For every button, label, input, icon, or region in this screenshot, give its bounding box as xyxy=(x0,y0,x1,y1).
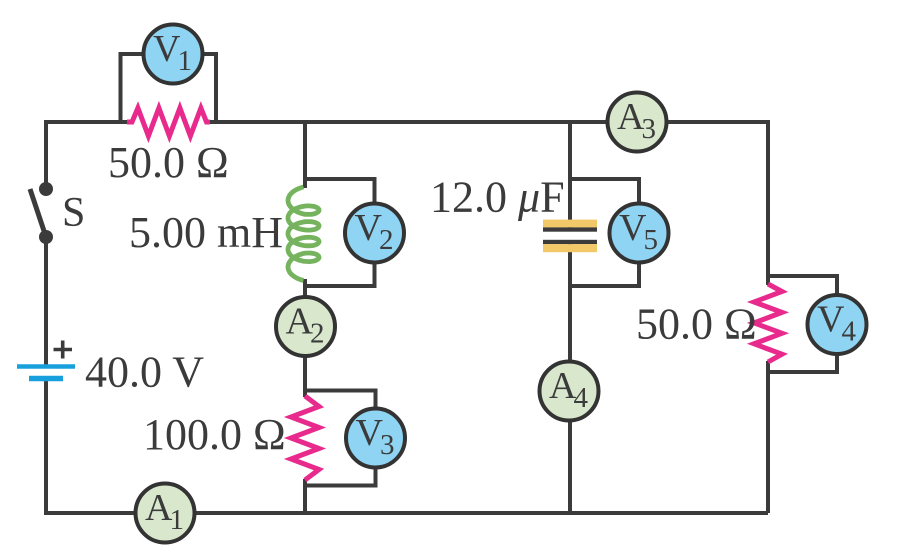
svg-text:50.0 Ω: 50.0 Ω xyxy=(108,138,229,187)
wire: coil bottom to A2 xyxy=(303,279,307,300)
wire: V2 bracket xyxy=(303,179,375,286)
inductor L1 5.00 mH (green coil) xyxy=(288,187,319,280)
svg-text:12.0 μF: 12.0 μF xyxy=(430,173,565,222)
wire: V1 bracket xyxy=(121,54,217,122)
wire: middle branch top (junction to coil) xyxy=(303,120,307,188)
wire: V3 bracket xyxy=(303,391,376,486)
capacitor C1 plates with yellow highlights xyxy=(543,220,597,253)
voltmeter V5 xyxy=(610,204,669,263)
svg-text:S: S xyxy=(62,190,85,236)
battery plus sign xyxy=(54,341,73,359)
wire: right wire below resistor to bottom-right corner xyxy=(766,361,770,513)
resistor R1 50.0 ohm (top, horizontal) xyxy=(127,108,210,136)
svg-text:50.0 Ω: 50.0 Ω xyxy=(636,300,757,349)
wire: resistor 100ohm bottom to bottom wire xyxy=(303,479,307,515)
svg-text:40.0 V: 40.0 V xyxy=(85,348,204,397)
resistor R2 100.0 ohm (middle, vertical) xyxy=(291,396,319,480)
wire: bottom wire and left wire lower segment xyxy=(46,377,768,513)
svg-text:100.0 Ω: 100.0 Ω xyxy=(143,410,286,459)
wire: capacitor to A4 to bottom wire xyxy=(568,240,572,515)
ammeter A2 xyxy=(276,297,335,356)
wire: top-left corner run (left wire upper + top wire to resistor) xyxy=(46,122,128,191)
ammeter A4 xyxy=(540,362,599,421)
battery 40.0 V plates xyxy=(17,367,75,379)
wire: V4 bracket xyxy=(766,276,837,372)
voltmeter V2 xyxy=(345,204,404,263)
wire: top wire from resistor to right corner, down to 50ohm resistor top xyxy=(209,122,768,285)
wire: capacitor branch top (junction to capacitor) xyxy=(568,120,572,232)
voltmeter V1 xyxy=(144,25,203,84)
wire: A2 to resistor 100ohm xyxy=(303,353,307,397)
wire: V5 bracket xyxy=(568,179,639,286)
resistor R3 50.0 ohm (right, vertical) xyxy=(754,284,782,362)
voltmeter V3 xyxy=(346,409,405,468)
ammeter A1 xyxy=(136,484,195,543)
switch S contacts and lever xyxy=(39,182,53,244)
wire: left wire switch-to-battery segment xyxy=(44,235,48,367)
svg-text:5.00 mH: 5.00 mH xyxy=(129,208,283,257)
voltmeter V4 xyxy=(808,295,867,354)
ammeter A3 xyxy=(608,93,667,152)
